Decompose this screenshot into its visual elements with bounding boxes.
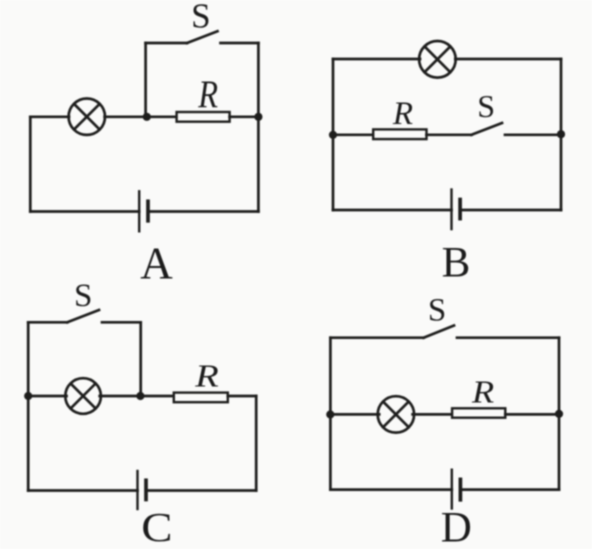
svg-text:B: B [442,240,471,287]
circuit A: middle wire resistor to node [230,115,259,118]
circuit C: switch branch right vertical wire [139,322,142,396]
circuit B: top wire left segment [333,58,420,61]
lamp L (circuit D) [378,396,414,432]
switch S (circuit A) blade [187,31,218,43]
lamp L (circuit C) [65,378,101,414]
svg-text:S: S [477,88,495,124]
circuit A: middle wire left segment [30,115,69,118]
node (circuit B right junction) [557,130,565,138]
circuit C: left vertical wire [27,322,30,490]
battery (circuit A) long plate [138,191,140,231]
circuit C: bottom wire right segment [146,489,256,492]
circuit C: middle wire resistor to right vertical [228,395,256,398]
circuit A: right vertical wire [257,43,260,212]
circuit C: middle wire lamp to node [100,395,141,398]
battery (circuit C) long plate [136,471,138,509]
circuit B: middle wire switch to node [505,133,561,136]
resistor R (circuit B) [373,129,426,139]
node (circuit D left junction) [326,410,334,418]
svg-text:S: S [428,292,446,328]
svg-text:D: D [441,505,472,549]
node (circuit A left junction) [143,113,151,121]
svg-text:R: R [197,72,218,116]
circuit C: switch branch top left wire [28,321,67,324]
battery (circuit A) short thick plate [146,201,150,221]
circuit B: left vertical wire [332,59,335,210]
circuit C: switch branch top right wire [102,321,141,324]
circuit A: switch branch left vertical wire [144,43,147,117]
circuit B: bottom wire right segment [460,209,561,212]
circuit B: bottom wire left segment [333,209,452,212]
circuit D: bottom wire left segment [330,488,451,491]
circuit C: bottom wire left segment [28,489,137,492]
svg-text:S: S [74,278,92,314]
circuit C: right vertical wire [255,396,258,491]
svg-text:A: A [140,239,173,289]
circuit A: switch branch top right wire [221,42,259,45]
circuit D: middle wire resistor to node [505,413,559,416]
switch S (circuit C) blade [67,310,99,322]
circuit D: left vertical wire [329,338,332,490]
circuit A: left vertical wire [29,117,32,212]
svg-text:S: S [191,0,210,35]
switch S (circuit D) blade [424,326,454,338]
node (circuit B left junction) [329,131,337,139]
circuit B: top wire right segment [455,58,561,61]
circuit C: middle wire node to resistor [140,395,173,398]
circuit D: bottom wire right segment [460,488,559,491]
node (circuit C right junction) [136,392,144,400]
battery (circuit C) short thick plate [144,480,148,499]
circuit D: middle wire node to lamp [330,413,379,416]
circuit B: middle wire resistor to switch [427,133,472,136]
svg-text:R: R [392,96,413,132]
circuit A: middle wire lamp to node [105,115,147,118]
svg-text:C: C [141,504,172,549]
circuit D: top wire left segment [330,336,423,339]
circuit D: right vertical wire [558,338,561,490]
resistor R (circuit D) [452,408,505,417]
resistor R (circuit C) [174,393,228,403]
node (circuit C left junction) [24,392,32,400]
circuit A: switch branch top left wire [146,42,187,45]
circuit A: bottom wire left segment [30,210,139,213]
circuit A: bottom wire right segment [148,210,258,213]
battery (circuit D) short thick plate [459,479,463,499]
circuit B: middle wire node to resistor [333,133,373,136]
circuit A: middle wire node to resistor [147,115,177,118]
lamp L (circuit A) [69,99,105,135]
lamp L (circuit B) [419,41,456,78]
circuit B: right vertical wire [560,59,563,210]
svg-text:R: R [194,359,219,394]
node (circuit A right junction) [254,113,262,121]
circuit D: middle wire lamp to resistor [413,413,453,416]
battery (circuit B) long plate [450,190,452,230]
circuit D: top wire right segment [457,336,559,339]
battery (circuit B) short thick plate [458,200,462,219]
switch S (circuit B) blade [472,123,503,135]
circuit C: middle wire node to lamp [28,395,66,398]
node (circuit D right junction) [555,410,563,418]
resistor R (circuit A) [177,112,230,122]
svg-text:R: R [471,376,494,410]
battery (circuit D) long plate [451,470,453,509]
